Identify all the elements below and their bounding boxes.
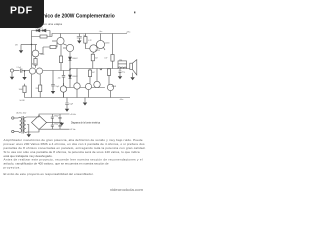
terminal AC2: [12, 130, 14, 132]
svg-text:2.2 µF: 2.2 µF: [17, 67, 22, 69]
capacitor C3 bars: [51, 84, 54, 86]
transformer T1 secondary: [24, 117, 27, 132]
inductor L1: [118, 67, 127, 69]
capacitor C1 bars: [20, 69, 22, 73]
capacitor C8 bottom: [51, 123, 54, 130]
input jack J1: [10, 69, 13, 72]
wire Q3 top: [35, 45, 37, 51]
wire rail drop right: [112, 34, 114, 55]
resistor R4: [34, 59, 37, 66]
wire loop right vertical: [49, 31, 51, 37]
diode chain D5: [69, 75, 72, 78]
wire Q4 emitter to rail: [60, 34, 62, 38]
capacitor C2 bars: [77, 37, 82, 39]
bridge rectifier BR1: [32, 116, 47, 130]
svg-text:0.47: 0.47: [99, 69, 102, 71]
wire secondary bottom to bridge: [27, 130, 39, 133]
svg-text:PDF: PDF: [10, 5, 33, 17]
svg-text:+Vcc: +Vcc: [126, 31, 131, 33]
wire speaker ground: [132, 73, 134, 77]
svg-text:4700µF: 4700µF: [54, 115, 59, 117]
transistor Q4: [57, 37, 64, 44]
wire R7 to rail: [39, 92, 41, 98]
transistor Q9 driver: [94, 81, 100, 87]
wire Q7 to rail: [63, 92, 65, 97]
paragraph body: [4, 138, 146, 176]
resistor R3 in loop: [40, 35, 47, 38]
wire C3 to ground: [52, 86, 54, 91]
resistor R14 output: [118, 61, 127, 64]
wire R10 down: [108, 75, 110, 85]
speaker SP1: [130, 63, 133, 69]
wire Q3 collector stub: [39, 47, 43, 54]
svg-text:4.7K: 4.7K: [88, 40, 91, 42]
ground G4: [51, 91, 55, 94]
svg-text:0.47: 0.47: [104, 58, 107, 60]
svg-text:videorockola.com: videorockola.com: [110, 188, 143, 192]
wire output node left: [43, 70, 70, 72]
wire output node right: [70, 69, 130, 71]
ground G9 center tap: [27, 134, 31, 137]
capacitor C6 below rail: [66, 98, 68, 103]
power transistor Q10: [96, 40, 104, 48]
capacitor C4 bars: [62, 76, 65, 78]
wire Q5 down to diode chain: [69, 52, 71, 55]
wire Q12 to rail: [110, 91, 112, 98]
svg-text:+45 Vdc: +45 Vdc: [70, 114, 76, 116]
wire AC2: [14, 131, 18, 133]
resistor R5: [50, 46, 56, 49]
resistor R8: [59, 56, 62, 63]
svg-text:BD139: BD139: [95, 50, 100, 52]
wire Q9 down: [96, 87, 98, 89]
wire top diode loop upper: [32, 30, 51, 32]
capacitor C11 zobel: [119, 71, 122, 72]
wire input jack ground: [11, 72, 13, 77]
wire R6 to Q6 base: [85, 43, 89, 48]
wire diode chain mid: [69, 55, 71, 76]
wire Q10 emitter: [103, 47, 105, 50]
diode D1: [36, 29, 40, 32]
svg-text:4700µF: 4700µF: [54, 123, 59, 125]
wire Q8 to rail: [76, 89, 78, 97]
wire chain to driver: [69, 78, 71, 87]
transformer T1 core: [22, 116, 23, 134]
svg-text:AC/Vca 110v: AC/Vca 110v: [17, 112, 27, 115]
wire C2 bottom: [78, 38, 80, 40]
svg-text:47p: 47p: [58, 77, 61, 79]
junction node D: [24, 70, 25, 71]
svg-text:-45 Vdc: -45 Vdc: [70, 129, 76, 131]
wire +V rail: [39, 114, 70, 116]
wire Q4 base stub: [52, 40, 57, 42]
svg-text:0.1µ: 0.1µ: [122, 71, 125, 73]
transformer T1 primary: [18, 117, 21, 132]
wire loop left vertical: [31, 31, 33, 37]
diode chain D3: [69, 57, 72, 60]
junction node B: [69, 69, 70, 70]
transistor Q2 input pair B: [36, 68, 42, 74]
svg-text:C5200: C5200: [105, 42, 110, 44]
svg-text:+Vcc: +Vcc: [99, 31, 103, 33]
wire top diode loop lower: [32, 36, 53, 38]
resistor R7: [39, 85, 42, 92]
wire base feed horizontal: [21, 44, 37, 46]
wire Q7 top stub: [63, 83, 65, 86]
svg-text:-Vcc: -Vcc: [120, 99, 124, 101]
resistor R16: [91, 54, 94, 61]
wire Q6 emitter to R16: [92, 52, 95, 54]
ground G2: [77, 41, 81, 44]
svg-text:10µF: 10µF: [70, 104, 74, 106]
wire pair tail A: [31, 74, 33, 97]
PDF badge: [0, 0, 44, 28]
capacitor C7 top: [51, 114, 54, 123]
wire 47p drop: [63, 71, 65, 76]
ground G10 input shunt: [22, 77, 26, 80]
ground G3: [10, 77, 14, 80]
wire feedback vertical: [31, 37, 33, 68]
ground G5: [118, 76, 122, 79]
wire mid horizontal y47: [43, 42, 57, 47]
wire Q3 bottom: [35, 57, 37, 58]
transistor Q11 driver: [85, 83, 91, 89]
wire R16 to node: [92, 61, 94, 69]
wire Q4-Q5 link: [63, 44, 67, 46]
terminal AC1: [12, 117, 14, 119]
transistor Q3: [32, 50, 39, 57]
capacitor C10 bottom: [59, 123, 62, 130]
page mark top right: [134, 12, 135, 14]
resistor R13: [111, 55, 114, 62]
wire top rail to +Vcc: [52, 34, 127, 37]
junction node A: [31, 44, 32, 45]
wire Q5 base stub: [63, 47, 66, 49]
wire L1 links: [118, 64, 127, 69]
wire to ground left: [20, 45, 22, 51]
power transistor Q12: [107, 84, 113, 90]
svg-text:0.47: 0.47: [95, 58, 98, 60]
wire Q9 up: [96, 69, 98, 82]
transistor Q5: [66, 44, 73, 51]
wire vas vertical: [60, 45, 62, 56]
wire C2 top: [78, 34, 80, 37]
wire C4 to rail: [63, 77, 65, 97]
resistor R6: [84, 37, 87, 44]
wire pair tail B top: [39, 74, 41, 85]
wire R9 to Q11: [89, 77, 91, 84]
wire secondary center tap: [27, 125, 29, 135]
wire zobel to ground: [119, 72, 121, 76]
junction node C: [100, 69, 101, 70]
svg-text:0.47: 0.47: [92, 72, 95, 74]
resistor R10 below node: [108, 68, 110, 70]
wire -V rail: [39, 128, 70, 130]
transistor Q6: [90, 45, 97, 52]
power supply diagram: [12, 112, 77, 138]
svg-text:proyectos.: proyectos.: [4, 166, 21, 170]
ground G6: [130, 77, 134, 80]
wire zobel drop: [119, 69, 121, 71]
svg-text:1N4007: 1N4007: [72, 58, 77, 60]
svg-text:1µF: 1µF: [83, 35, 86, 37]
wire 0V rail: [47, 122, 63, 124]
ground G1: [19, 50, 23, 53]
capacitor C9 top: [59, 114, 62, 123]
wire R8 down: [60, 63, 62, 71]
wire R2 stub top: [24, 84, 26, 86]
wire bottom rail: [25, 97, 131, 99]
svg-text:Vol 10K: Vol 10K: [20, 100, 25, 102]
wire Q8 up: [76, 69, 78, 83]
wire cap to pair: [22, 70, 30, 72]
diode D2: [42, 29, 46, 32]
resistor R2 volume: [23, 86, 26, 93]
wire feedback cap drop: [52, 71, 54, 85]
svg-text:Diagrama de la fuente simétric: Diagrama de la fuente simétrica: [71, 122, 101, 125]
wire R2 to rail: [24, 93, 26, 98]
wire R13 to node: [112, 61, 114, 68]
transistor Q7 driver: [60, 86, 66, 92]
ground G7 below rail: [84, 98, 86, 103]
wire AC1: [14, 117, 18, 119]
ground G8 psu: [60, 123, 64, 126]
wire Q11 to rail: [88, 90, 90, 98]
wire shunt top: [24, 71, 26, 77]
svg-text:El éxito de este proyecto es r: El éxito de este proyecto es responsabil…: [4, 172, 94, 176]
wire Q10 collector: [100, 34, 102, 41]
wire R4 to input pair: [35, 65, 37, 68]
resistor R9 below node: [89, 69, 91, 71]
svg-text:1N4007: 1N4007: [72, 76, 77, 78]
wire driver base bus: [65, 87, 105, 89]
wire secondary top to bridge: [27, 116, 39, 118]
transistor Q8 driver: [74, 83, 80, 89]
wire input to cap: [14, 70, 20, 72]
wire R6 top: [84, 34, 86, 37]
transistor Q1 input pair A: [29, 68, 35, 74]
svg-text:10µF: 10µF: [56, 86, 60, 88]
